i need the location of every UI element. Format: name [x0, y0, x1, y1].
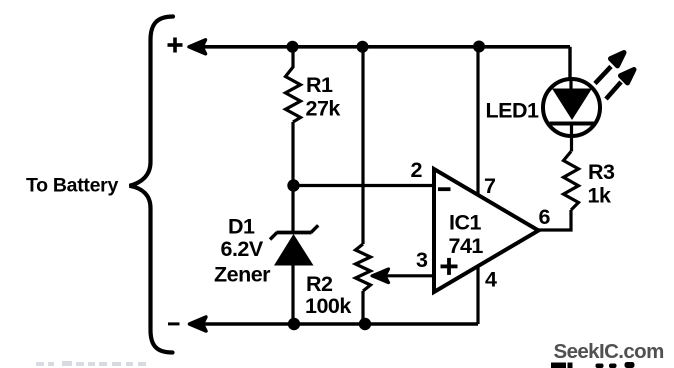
- svg-text:6.2V: 6.2V: [221, 237, 264, 261]
- label R2 100k: [305, 272, 351, 318]
- LED emission arrow 2: [606, 70, 634, 100]
- wire bottom rail: [191, 322, 478, 325]
- wire wiper to pin 3: [385, 274, 435, 277]
- resistor R3: [564, 152, 579, 211]
- wire node to zener: [291, 186, 294, 233]
- label D1 6.2V Zener: [214, 214, 271, 286]
- wire top rail to R1: [291, 47, 294, 68]
- wire top rail to R2: [361, 47, 364, 244]
- svg-text:R3: R3: [588, 160, 615, 184]
- node dot top rail / R1: [287, 41, 299, 53]
- faint bottom-left watermark remnants: [36, 361, 146, 366]
- svg-text:R1: R1: [306, 73, 333, 97]
- potentiometer R2: [356, 244, 371, 291]
- svg-text:D1: D1: [228, 214, 255, 238]
- svg-text:100k: 100k: [305, 294, 351, 318]
- svg-text:3: 3: [416, 248, 428, 272]
- resistor R1: [286, 67, 301, 122]
- wire node to pin 2: [293, 184, 434, 187]
- svg-text:741: 741: [449, 234, 484, 258]
- wire R1 to node: [291, 122, 294, 186]
- node dot zener/R1/pin2: [287, 179, 299, 191]
- wire pin 7: [476, 47, 479, 195]
- op-amp inverting input mark: [438, 187, 451, 191]
- svg-text:7: 7: [484, 174, 496, 198]
- svg-text:4: 4: [485, 268, 497, 292]
- label R1 27k: [306, 73, 341, 121]
- wire top rail: [191, 45, 570, 49]
- wire pin 4: [476, 266, 479, 325]
- node dot top rail / R2 branch: [357, 41, 369, 53]
- label - (negative rail): [168, 322, 180, 325]
- arrowhead top rail: [189, 40, 206, 54]
- node dot bottom rail / R2: [359, 318, 371, 330]
- wire top rail corner to LED: [568, 47, 571, 79]
- brace (To Battery): [130, 17, 174, 353]
- wire R3 to LED: [570, 137, 573, 152]
- label R3 1k: [588, 160, 616, 208]
- svg-text:R2: R2: [306, 272, 333, 296]
- svg-text:Zener: Zener: [214, 263, 271, 287]
- op-amp IC1 741: [434, 169, 539, 292]
- zener diode D1: [270, 225, 318, 265]
- svg-text:6: 6: [539, 205, 551, 229]
- label + (positive rail): [168, 38, 183, 53]
- arrowhead bottom rail: [190, 317, 207, 331]
- LED emission arrow 1: [595, 53, 624, 84]
- wire R2 to bottom rail: [361, 291, 364, 324]
- node dot top rail / pin 7 branch: [473, 41, 485, 53]
- LED LED1: [543, 79, 600, 137]
- svg-text:SeekIC.com: SeekIC.com: [554, 340, 664, 363]
- op-amp non-inverting input mark: [441, 258, 458, 275]
- figure caption cut off: [551, 362, 635, 368]
- label IC1 741: [449, 210, 484, 258]
- svg-text:2: 2: [411, 158, 423, 182]
- wire zener to bottom rail: [291, 264, 294, 324]
- svg-text:To Battery: To Battery: [26, 175, 118, 197]
- node dot bottom rail / zener: [288, 318, 300, 330]
- svg-text:27k: 27k: [306, 97, 341, 121]
- wire pin 6 output: [539, 210, 572, 230]
- svg-text:IC1: IC1: [449, 210, 482, 234]
- svg-text:LED1: LED1: [486, 98, 540, 122]
- wiper arrowhead R2: [372, 269, 389, 283]
- svg-text:1k: 1k: [588, 184, 611, 208]
